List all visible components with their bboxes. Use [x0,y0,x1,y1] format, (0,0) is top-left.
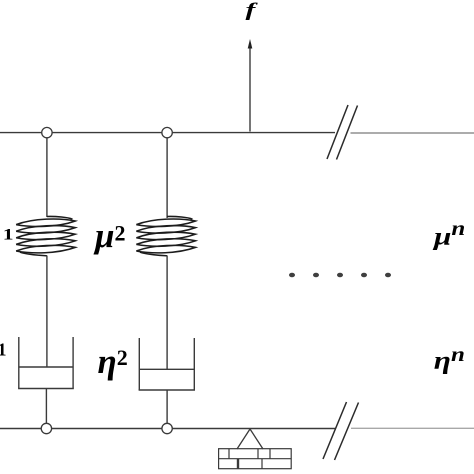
node on top rail branch 1 [42,127,52,137]
wire bottom rail left segment [0,428,336,430]
spring mu2 (coil) [136,216,195,255]
force arrow f (vertical line with arrowhead) [248,39,253,132]
node on top rail branch 2 [162,127,172,137]
wire branch 1 lower rod [45,389,47,425]
wire bottom rail right segment (after break) [351,427,474,429]
label eta n [434,343,465,374]
ground support triangle [237,429,263,449]
label f [246,0,259,21]
dashpot eta1 (cylinder + piston) [18,337,74,389]
spring mu1 (coil) [16,216,75,255]
wire branch 1 middle rod [46,256,48,368]
wire branch 2 lower rod [166,390,168,424]
svg-text:1: 1 [0,340,7,360]
wire branch 2 middle rod [166,256,168,370]
wire top rail right segment (after break) [351,132,474,134]
ellipsis dots (continuation) [289,273,391,278]
node on bottom rail branch 2 [162,423,172,433]
label mu n [432,217,465,250]
dashpot eta2 (cylinder + piston) [139,338,195,390]
svg-text:1: 1 [3,226,14,244]
node on bottom rail branch 1 [41,423,51,433]
wire top rail left segment [0,132,335,134]
wire branch 1 upper rod [46,138,48,218]
label mu1 superscript (clipped at left edge) [3,226,14,244]
ground hatching (brick wall) [219,449,292,469]
wire branch 2 upper rod [166,138,168,219]
break mark (double slash) on top rail [327,105,358,160]
break mark (double slash) on bottom rail [323,402,359,460]
